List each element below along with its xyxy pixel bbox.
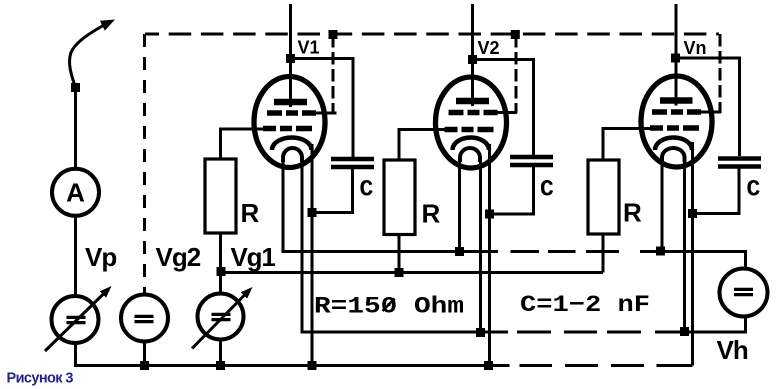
svg-text:V1: V1: [298, 38, 320, 58]
heater rail B right segment to Vh: [655, 317, 746, 333]
wire C3 bottom to Vn cathode: [693, 169, 740, 214]
node: V1 cathode / C1 junction: [308, 208, 317, 217]
wire Vn heater right leg: [683, 156, 686, 332]
resistor R3: [588, 160, 619, 234]
dashed drop to V1 g2: [332, 35, 335, 113]
tube V1 cathode arc: [272, 138, 312, 151]
source Vp (variable DC): [52, 296, 99, 343]
wire V1 anode to C1: [291, 59, 354, 158]
tube V2 envelope: [436, 77, 507, 168]
node: V1 g2 tap on bus: [329, 30, 338, 39]
node: V2 heater on rail A: [455, 247, 464, 256]
anode supply wire Vn: [675, 4, 678, 106]
svg-text:R=150 Ohm: R=150 Ohm: [314, 294, 464, 320]
wire Vn cathode lead: [691, 142, 694, 366]
anode supply wire V2: [471, 4, 474, 106]
wire Vg1 to bottom rail: [219, 340, 222, 367]
dashed screen-grid bus (top): [145, 33, 719, 36]
svg-text:C: C: [360, 177, 374, 203]
node: Vg1 on bottom rail: [216, 361, 225, 370]
resistor R1: [205, 159, 236, 233]
bottom rail (common return): [74, 364, 510, 367]
wire R2 top to V2 g1: [399, 130, 445, 161]
node: V2 anode tap: [468, 55, 477, 64]
svg-text:R: R: [623, 198, 642, 228]
wire R1 top to V1 g1: [221, 129, 265, 159]
tube V1 envelope: [254, 77, 325, 168]
svg-text:V2: V2: [478, 38, 500, 58]
tube V2 control grid g1 dashes: [445, 127, 458, 133]
node: Vg1/R1 junction: [217, 267, 226, 276]
tube Vn heater filament: [662, 148, 685, 162]
wire C2 bottom to V2 cathode: [490, 167, 534, 214]
capacitor C1: [331, 157, 374, 162]
tube V2 anode bar: [456, 98, 489, 105]
svg-text:Vp: Vp: [85, 242, 116, 272]
wire ammeter to Vp source: [74, 216, 77, 297]
wire R3 top to Vn g1: [603, 129, 650, 161]
dashed drop to Vn g2: [719, 34, 722, 113]
wire arrow dot to ammeter: [74, 90, 77, 169]
wire V1 heater left leg: [283, 158, 498, 252]
node: V2 heater on rail B: [476, 328, 485, 337]
svg-text:R: R: [422, 199, 441, 229]
wavy input arrow: [70, 25, 105, 88]
node: V1 anode tap: [286, 54, 295, 63]
heater rail A right segment to Vh: [640, 252, 746, 269]
source Vg1 (variable DC): [198, 294, 244, 340]
svg-text:R: R: [241, 198, 260, 228]
source Vg2 (fixed DC): [121, 295, 168, 342]
capacitor C3: [718, 156, 761, 161]
dashed drop to V2 g2: [515, 35, 518, 113]
anode supply wire V1: [289, 4, 292, 107]
tube Vn anode bar: [660, 97, 693, 104]
wire Vn heater left leg: [661, 156, 664, 251]
tube V1 control grid g1 dashes: [263, 126, 276, 132]
grid bias rail Vg1: [219, 271, 603, 274]
node: R2 on grid rail: [395, 268, 404, 277]
wire Vp to bottom rail: [74, 343, 77, 368]
wire R1 bottom to grid rail: [219, 233, 222, 273]
svg-text:Рисунок 3: Рисунок 3: [7, 371, 74, 387]
svg-text:C: C: [540, 177, 554, 203]
node: V2 g2 tap on bus: [511, 30, 520, 39]
svg-text:Vg2: Vg2: [156, 242, 201, 272]
tube V1 anode bar: [274, 99, 307, 106]
capacitor C2: [510, 155, 553, 160]
node: Vn anode tap: [671, 54, 680, 63]
wire V1 g2 connector: [316, 112, 337, 115]
heater rail A dashes (continuation): [511, 250, 540, 253]
svg-text:Vh: Vh: [717, 335, 748, 365]
wire Vg1 to grid rail: [219, 273, 222, 295]
slashed zero in 150: [383, 299, 395, 312]
wire V2 heater right leg: [479, 158, 482, 332]
tube Vn envelope: [641, 76, 712, 167]
wire V1 heater right leg: [302, 158, 508, 332]
wire R3 bottom to grid rail end: [602, 234, 604, 273]
ammeter A: [52, 169, 99, 216]
node: V1 cathode on bottom rail: [308, 361, 317, 370]
node: Vn heater on rail A: [656, 247, 665, 256]
wire V2 heater left leg: [458, 158, 461, 252]
wire C1 bottom to V1 cathode: [312, 169, 353, 213]
wire R2 bottom to grid rail: [398, 235, 401, 273]
node: Vn heater on rail B: [680, 327, 689, 336]
svg-text:C=1−2 nF: C=1−2 nF: [520, 292, 650, 318]
svg-text:A: A: [66, 178, 85, 208]
tube V2 cathode arc: [453, 138, 490, 151]
heater rail B dashes (continuation): [517, 331, 551, 334]
wire V2 g2 connector: [498, 111, 518, 114]
wire V2 cathode lead: [488, 144, 491, 366]
wire V2 anode to C2: [473, 60, 534, 156]
tube Vn control grid g1 dashes: [650, 125, 663, 131]
resistor R2: [384, 160, 415, 235]
source Vh (heater supply): [720, 269, 768, 317]
node: Vn cathode / C3 junction: [688, 209, 697, 218]
wire V1 cathode lead: [311, 144, 314, 366]
tube V1 heater filament: [283, 148, 302, 162]
svg-text:Vn: Vn: [684, 38, 707, 58]
node: V2 cathode / C2 junction: [485, 210, 494, 219]
wire Vn anode to C3: [676, 58, 740, 156]
tube V2 screen grid g2 dashes: [449, 110, 464, 116]
dashed g2 supply wire from bus to Vg2: [143, 34, 146, 296]
tube Vn screen grid g2 dashes: [652, 109, 667, 115]
wire Vn g2 connector: [701, 111, 721, 114]
node: Vg2 on bottom rail: [140, 361, 149, 370]
svg-text:C: C: [747, 177, 761, 203]
node: V2 cathode on bottom rail: [484, 361, 493, 370]
tube Vn cathode arc: [655, 138, 692, 151]
wire Vg2 to bottom rail: [143, 342, 146, 367]
tube V1 screen grid g2 dashes: [267, 110, 282, 116]
svg-text:Vg1: Vg1: [231, 242, 276, 272]
node: arrow junction dot: [71, 83, 80, 92]
tube V2 heater filament: [460, 148, 480, 162]
